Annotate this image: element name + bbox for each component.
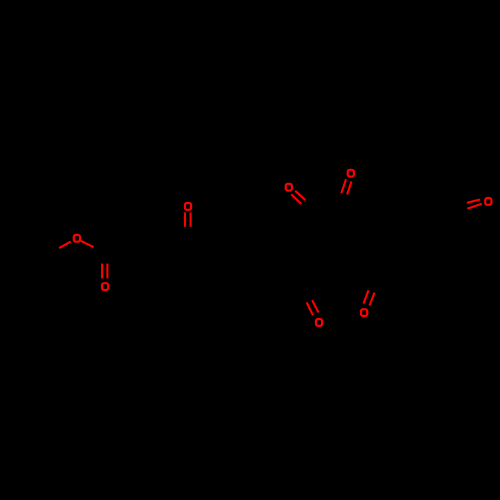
atom label O1 (ester ether oxygen) xyxy=(74,235,80,242)
ring A (invisible carbon bonds) xyxy=(272,217,355,270)
atom label O3 (chain ketone oxygen) xyxy=(185,203,191,210)
double bond C=O5 (ring diketone right) xyxy=(347,181,351,194)
double bond C5=O3 (chain ketone) xyxy=(184,212,186,226)
double bond C=O4 (ring diketone left) xyxy=(295,191,305,200)
atom label O7 (bottom-left ketone oxygen) xyxy=(316,319,322,326)
wire: carbon chain C1 methyl to ester (invisible carbon bonds) xyxy=(48,243,70,255)
atom label O6 (right ketone oxygen) xyxy=(485,198,491,205)
atom label O8 (bottom-right ketone oxygen) xyxy=(361,309,367,316)
ring B (invisible carbon bonds) xyxy=(350,215,420,272)
atom label O4 (ring diketone oxygen left) xyxy=(286,184,292,191)
double bond C=O7 (bottom-left ketone) xyxy=(312,300,318,312)
double bond C2=O2 (ester carbonyl) xyxy=(101,264,103,279)
wire: side chain to right ketone (invisible carbon bonds) xyxy=(385,190,446,215)
double bond C=O6 (right aldehyde/ketone) xyxy=(467,200,480,203)
atom label O5 (ring diketone oxygen right) xyxy=(348,170,354,177)
bond O1-C1 red half (ester ether oxygen to methyl side) xyxy=(59,242,71,249)
wire: carbonyl carbon stubs (invisible halves) xyxy=(104,254,106,263)
atom label O2 (ester carbonyl oxygen) xyxy=(102,283,108,290)
bond O1-C2 red half (ester ether oxygen to carbonyl side) xyxy=(81,241,94,247)
double bond C=O8 (bottom-right ketone) xyxy=(364,290,369,303)
